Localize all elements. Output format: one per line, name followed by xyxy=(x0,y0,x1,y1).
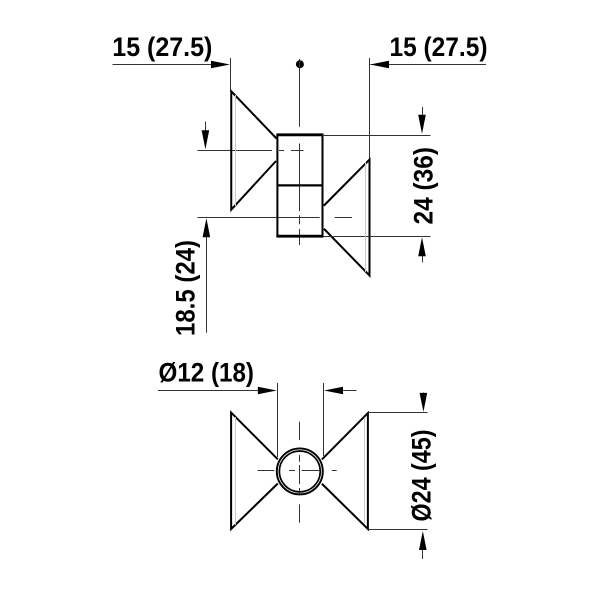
center reference dot xyxy=(296,60,304,68)
Ø24 (45) bottom extension line xyxy=(369,529,428,531)
Ø12 dimension line left xyxy=(158,390,262,392)
24 (36) top extension line xyxy=(322,135,431,137)
svg-text:Ø24 (45): Ø24 (45) xyxy=(406,430,436,522)
24 (36) bottom extension line xyxy=(324,236,431,238)
left cone (front view) xyxy=(231,413,278,529)
Ø12 right arrow xyxy=(339,390,357,392)
Ø12 left arrowhead xyxy=(258,387,277,395)
arrowhead left 15 xyxy=(211,61,230,69)
centerline through body (dash-dot) xyxy=(299,144,301,246)
cylinder rectangle: thick top and bottom edges xyxy=(276,135,323,236)
18.5 (24) down arrow at top xyxy=(205,122,207,135)
arrowhead right 15 xyxy=(370,61,389,69)
inner circle xyxy=(279,451,320,492)
inner line of cylinder xyxy=(277,184,323,186)
bottom fig vertical centerline xyxy=(299,422,301,523)
Ø12 extension line right (x=323.2) xyxy=(323,383,325,456)
right cone axis line (y=217.6) xyxy=(198,217,353,219)
left cone (trapezoid) xyxy=(231,91,276,209)
svg-text:15 (27.5): 15 (27.5) xyxy=(390,32,488,62)
right cone (trapezoid) xyxy=(324,160,370,276)
svg-text:24 (36): 24 (36) xyxy=(409,147,439,225)
bottom fig horizontal centerline xyxy=(258,470,337,472)
24 (36) bottom arrow (up) xyxy=(422,252,424,262)
Ø24 top arrow (down) xyxy=(423,393,425,397)
24 (36) top arrow (down) xyxy=(422,107,424,120)
svg-text:18.5 (24): 18.5 (24) xyxy=(171,240,201,336)
dimension line right 15 xyxy=(371,64,487,66)
dimension line left 15 xyxy=(113,64,216,66)
faint face line bottom left cone xyxy=(235,417,237,525)
Ø12 extension line left (x=277.2) xyxy=(277,383,279,457)
faint face line bottom right cone xyxy=(364,418,366,525)
outer circle xyxy=(277,448,323,494)
svg-text:Ø12 (18): Ø12 (18) xyxy=(159,358,255,388)
centerline stem below dot xyxy=(299,59,301,127)
extension line right (x=369.5) xyxy=(369,58,371,159)
right cone (front view) xyxy=(322,413,368,529)
cylinder body rectangle: sides xyxy=(277,135,322,237)
faint face line right cone xyxy=(365,162,367,272)
left cone axis line (18.5 ref, y=150.5) xyxy=(198,150,304,152)
svg-text:15 (27.5): 15 (27.5) xyxy=(112,32,212,62)
Ø24 bottom arrow (up) xyxy=(422,549,424,559)
Ø24 (45) top extension line xyxy=(369,412,428,414)
18.5 (24) up arrow xyxy=(206,234,208,333)
faint face line left cone xyxy=(235,95,237,206)
extension line left (x=230.4) xyxy=(230,58,232,91)
